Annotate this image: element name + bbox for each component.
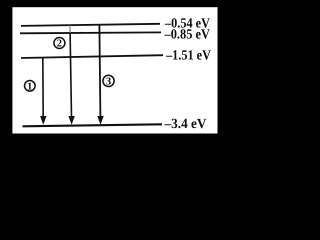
- circled label 2: [54, 38, 65, 50]
- svg-text:3: 3: [106, 77, 111, 88]
- energy level E4 line (-0.54 eV): [21, 24, 160, 26]
- svg-text:–1.51 eV: –1.51 eV: [165, 49, 211, 64]
- svg-text:1: 1: [27, 81, 32, 92]
- svg-text:–3.4 eV: –3.4 eV: [164, 117, 207, 132]
- transition arrow 3 (from -0.54 eV down to -3.4 eV): [97, 25, 103, 125]
- transition arrow 2 (from -0.54 eV down to -3.4 eV): [68, 25, 74, 124]
- energy level E1 line (-3.4 eV): [23, 124, 163, 126]
- svg-text:2: 2: [57, 39, 62, 50]
- circled label 1: [25, 81, 36, 93]
- energy level E3 line (-0.85 eV): [20, 31, 161, 34]
- svg-text:–0.85 eV: –0.85 eV: [164, 27, 210, 42]
- transition arrow 1 (from -1.51 eV down to -3.4 eV): [40, 57, 46, 125]
- circled label 3: [103, 75, 114, 87]
- energy level E2 line (-1.51 eV): [21, 55, 163, 58]
